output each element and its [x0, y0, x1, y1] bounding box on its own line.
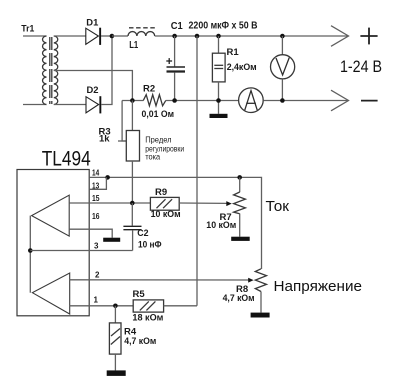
wire pin 16	[69, 229, 112, 238]
svg-text:10 кОм: 10 кОм	[206, 220, 236, 231]
resistor R3 (trimmer body)	[126, 101, 139, 204]
svg-text:Ток: Ток	[266, 198, 290, 215]
diode D2	[86, 96, 101, 113]
svg-text:D2: D2	[87, 85, 99, 96]
wire top rail L1 to arrow	[155, 35, 348, 37]
capacitor C1	[166, 36, 185, 101]
diode D1	[86, 28, 101, 45]
wire R3 wiper	[122, 101, 126, 142]
node R2 right / C1 bottom	[172, 98, 177, 103]
wire bottom rail R2 to ammeter	[166, 100, 238, 102]
inductor L1	[128, 32, 155, 36]
svg-text:R1: R1	[227, 47, 240, 58]
voltmeter V	[271, 36, 295, 101]
wire R9 to R7 wiper	[179, 202, 227, 204]
ground R7	[231, 237, 250, 241]
wire output feedback vertical	[196, 36, 198, 306]
ground R4	[107, 370, 126, 376]
arrowhead R8 wiper	[248, 278, 253, 283]
wire secondary top lead to D1	[54, 35, 86, 37]
svg-text:Напряжение: Напряжение	[274, 278, 363, 295]
wire pin 2 to R8 wiper	[70, 279, 249, 281]
svg-text:1k: 1k	[99, 134, 110, 145]
resistor R1	[212, 36, 225, 114]
wire pin 1 to R5	[70, 305, 134, 307]
wire primary bottom lead	[23, 104, 47, 106]
node R7 top	[237, 175, 242, 180]
node voltmeter bottom	[280, 98, 285, 103]
svg-text:R5: R5	[133, 289, 146, 300]
wire primary top lead	[23, 35, 47, 37]
ground pin 16	[103, 238, 120, 242]
ground R1	[210, 114, 228, 118]
resistor R4 (hatched box)	[109, 306, 121, 371]
minus symbol	[361, 100, 378, 102]
wire secondary bottom lead to D2	[54, 104, 86, 106]
svg-text:Tr1: Tr1	[21, 23, 35, 34]
label current limit note	[145, 134, 184, 161]
wire pin 13	[89, 177, 106, 189]
svg-text:4,7 кОм: 4,7 кОм	[124, 336, 156, 347]
wire amp outputs bus	[29, 216, 31, 293]
wire D1 cathode to node	[101, 35, 112, 37]
svg-text:4,7 кОм: 4,7 кОм	[223, 293, 255, 304]
wire secondary center tap	[54, 71, 133, 101]
ground R8	[251, 313, 270, 318]
node voltmeter top	[280, 34, 285, 39]
wire ref rail to R8 top	[240, 177, 262, 269]
svg-text:D1: D1	[86, 18, 99, 29]
svg-text:тока: тока	[145, 151, 160, 161]
svg-text:14: 14	[92, 169, 100, 178]
op-amp error amp 2	[32, 273, 69, 314]
wire bottom rail left (center tap to R2)	[122, 100, 143, 102]
resistor R9 (hatched box)	[150, 197, 179, 210]
svg-text:C1: C1	[171, 21, 183, 32]
svg-text:1: 1	[94, 296, 99, 305]
wire bottom rail ammeter to arrow	[264, 100, 348, 102]
wire pin 3 to C2	[30, 250, 132, 252]
IC U1 TL494 body	[17, 170, 89, 316]
transformer Tr1 primary winding	[43, 36, 47, 105]
op-amp error amp 1	[32, 195, 70, 236]
node D1/D2 junction	[110, 34, 115, 39]
svg-text:2200 мкФ x 50 В: 2200 мкФ x 50 В	[189, 21, 258, 32]
resistor R5 (hatched box)	[133, 300, 163, 312]
node pin 1 / R4 / R5	[113, 304, 118, 309]
svg-text:3: 3	[94, 241, 99, 250]
svg-text:1-24 В: 1-24 В	[340, 58, 382, 76]
wire R3 wiper tick	[118, 140, 126, 142]
node R2 left	[130, 98, 135, 103]
ammeter A	[239, 88, 264, 113]
node pin 15 / C2	[130, 201, 135, 206]
wire pin 15	[69, 202, 150, 204]
inductor L1 dashed core	[129, 27, 155, 29]
resistor R2 (zigzag)	[143, 95, 166, 106]
node R1 bottom	[216, 98, 221, 103]
potentiometer R8	[255, 269, 266, 313]
node C1 top	[172, 34, 177, 39]
svg-text:0,01 Ом: 0,01 Ом	[142, 109, 175, 120]
wire D2 cathode up to top rail	[101, 36, 112, 105]
node pin3 bus	[28, 248, 33, 253]
svg-text:TL494: TL494	[42, 147, 91, 170]
svg-text:2: 2	[95, 271, 100, 280]
transformer core	[49, 37, 51, 104]
svg-text:10 кОм: 10 кОм	[151, 209, 181, 220]
svg-text:15: 15	[92, 194, 100, 203]
output arrow plus	[331, 26, 349, 47]
node pin 13/14	[105, 175, 110, 180]
transformer Tr1 secondary winding	[54, 36, 58, 105]
potentiometer R7	[234, 177, 246, 236]
svg-text:16: 16	[92, 212, 100, 221]
wire R5 to feedback vertical	[164, 305, 197, 307]
arrowhead R7 wiper	[226, 201, 232, 206]
svg-text:18 кОм: 18 кОм	[132, 313, 163, 324]
node output feedback tap	[195, 34, 200, 39]
svg-text:L1: L1	[129, 40, 138, 51]
svg-text:2,4кОм: 2,4кОм	[227, 62, 257, 73]
output arrow minus	[331, 90, 349, 111]
wire top rail node to L1	[112, 35, 128, 37]
wire pin 14	[89, 176, 240, 178]
svg-text:R9: R9	[155, 187, 167, 198]
capacitor C2	[123, 203, 141, 251]
node R1 top	[216, 34, 221, 39]
svg-text:10 нФ: 10 нФ	[138, 239, 162, 250]
svg-text:R2: R2	[143, 84, 155, 95]
svg-text:C2: C2	[137, 228, 148, 239]
plus symbol	[360, 28, 377, 45]
